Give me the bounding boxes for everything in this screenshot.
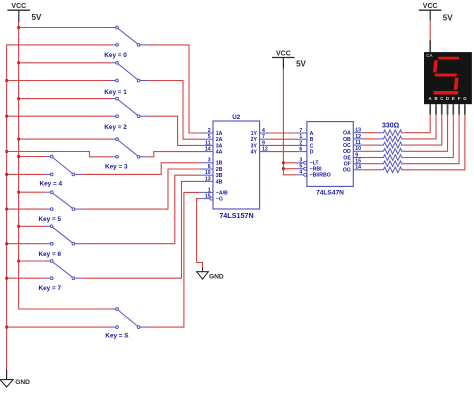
svg-text:7: 7 bbox=[299, 128, 302, 134]
svg-text:6: 6 bbox=[208, 164, 211, 170]
wire VCC bus to switch upper terminal y=139.1 bbox=[17, 138, 110, 141]
wire R7 to display segment G bbox=[404, 115, 465, 170]
wire VCC bus to switch upper terminal y=62.8 bbox=[17, 61, 110, 64]
switch J0 bbox=[104, 26, 147, 59]
pin U2 4B pin 13 bbox=[199, 176, 223, 185]
wire GND bus to switch lower terminal y=116.2 bbox=[5, 115, 110, 118]
svg-text:15: 15 bbox=[205, 194, 211, 200]
svg-text:GND: GND bbox=[209, 273, 224, 280]
svg-text:A: A bbox=[429, 96, 432, 101]
wire Key=S output to U2 ~A/B bbox=[148, 192, 200, 327]
wire U2 2Y to 74LS47N input bbox=[269, 138, 296, 140]
svg-text:C: C bbox=[440, 96, 443, 101]
ground GND at U2 ~G bbox=[202, 268, 204, 272]
pin U3 ~BI/RBO pin 4 bbox=[297, 170, 331, 179]
wire VCC bus to switch upper terminal y=156.5 bbox=[17, 155, 45, 158]
pin U2 2B pin 6 bbox=[199, 164, 223, 173]
svg-text:11: 11 bbox=[355, 140, 361, 146]
svg-text:12: 12 bbox=[355, 134, 361, 140]
svg-text:13: 13 bbox=[205, 176, 211, 182]
op IC U2 74LS157N multiplexer bbox=[213, 114, 260, 220]
pin U2 3A pin 11 bbox=[199, 140, 223, 149]
resistor R6 330 ohm bbox=[364, 161, 404, 167]
svg-text:13: 13 bbox=[355, 128, 361, 134]
svg-text:U2: U2 bbox=[232, 114, 240, 121]
svg-text:1B: 1B bbox=[216, 161, 223, 167]
svg-text:10: 10 bbox=[205, 170, 211, 176]
svg-text:CA: CA bbox=[426, 53, 433, 58]
svg-text:4A: 4A bbox=[216, 150, 223, 156]
svg-text:~G: ~G bbox=[216, 197, 223, 203]
wire R1 to display segment A bbox=[404, 115, 430, 133]
svg-text:OB: OB bbox=[343, 137, 351, 143]
wire VCC bus to switch upper terminal y=98.6 bbox=[17, 97, 110, 100]
pin U3 C pin 2 bbox=[297, 140, 314, 149]
svg-text:5V: 5V bbox=[32, 13, 42, 22]
svg-text:2: 2 bbox=[208, 128, 211, 134]
pin U3 ~RBI pin 5 bbox=[297, 164, 323, 173]
svg-text:F: F bbox=[458, 96, 461, 101]
svg-text:Key = S: Key = S bbox=[105, 332, 129, 339]
svg-text:2: 2 bbox=[299, 140, 302, 146]
switch J8 bbox=[105, 308, 147, 340]
svg-text:74LS47N: 74LS47N bbox=[316, 189, 344, 196]
wire U2 4Y to 74LS47N input bbox=[269, 151, 296, 153]
svg-text:Key = 6: Key = 6 bbox=[39, 251, 62, 258]
wire VCC bus to switch upper terminal y=261.0 bbox=[17, 260, 45, 263]
resistor R3 330 ohm bbox=[364, 142, 404, 148]
resistor R1 330 ohm bbox=[364, 130, 404, 136]
power VCC V3 5V top-right bbox=[419, 3, 453, 22]
svg-text:G: G bbox=[463, 96, 466, 101]
wire GND bus to switch lower terminal y=243.7 bbox=[5, 242, 45, 245]
pin U3 ~LT pin 3 bbox=[297, 158, 320, 167]
svg-text:Key = 3: Key = 3 bbox=[105, 163, 128, 170]
pin U2 1Y pin 4 bbox=[251, 128, 270, 137]
svg-text:2B: 2B bbox=[216, 167, 223, 173]
svg-text:4B: 4B bbox=[216, 179, 223, 185]
wire VCC bus to switch upper terminal y=27.5 bbox=[17, 26, 110, 29]
svg-text:3Y: 3Y bbox=[251, 143, 258, 149]
display U4 seven-segment common-anode bbox=[424, 21, 472, 115]
pin U3 OE pin 9 bbox=[343, 152, 363, 161]
switch J3 bbox=[105, 138, 148, 171]
pin U2 ~G pin 15 bbox=[199, 194, 223, 203]
svg-text:OA: OA bbox=[343, 131, 351, 137]
op IC U3 74LS47N BCD to seven-segment decoder bbox=[307, 122, 353, 197]
svg-text:7: 7 bbox=[262, 134, 265, 140]
pin U3 OA pin 13 bbox=[343, 128, 363, 137]
svg-text:OG: OG bbox=[343, 168, 351, 174]
wire U2 3Y to 74LS47N input bbox=[269, 144, 296, 146]
svg-text:3: 3 bbox=[208, 158, 211, 164]
pin U2 3B pin 10 bbox=[199, 170, 223, 179]
svg-text:12: 12 bbox=[262, 147, 268, 153]
svg-text:VCC: VCC bbox=[11, 3, 26, 10]
wire GND bus to switch lower terminal y=174.4 bbox=[5, 173, 45, 176]
svg-text:6: 6 bbox=[299, 147, 302, 153]
svg-text:C: C bbox=[310, 143, 314, 149]
resistor R5 330 ohm bbox=[364, 155, 404, 161]
pin U3 D pin 6 bbox=[297, 147, 314, 156]
svg-text:D: D bbox=[310, 150, 314, 156]
svg-text:B: B bbox=[310, 137, 314, 143]
svg-text:2Y: 2Y bbox=[251, 137, 258, 143]
pin U3 OF pin 15 bbox=[344, 159, 364, 168]
pin U2 ~A/B pin 1 bbox=[199, 187, 228, 196]
svg-text:~A/B: ~A/B bbox=[216, 190, 228, 196]
svg-text:B: B bbox=[434, 96, 437, 101]
wire R2 to display segment B bbox=[404, 115, 436, 139]
wire R4 to display segment D bbox=[404, 115, 448, 152]
switch J7 bbox=[39, 260, 83, 292]
wire Key=7 output to U2 4B bbox=[82, 181, 199, 278]
wire Key=0 output to U2 1A bbox=[148, 45, 200, 133]
power VCC V2 5V center bbox=[272, 50, 307, 68]
switch J1 bbox=[104, 61, 147, 96]
svg-text:VCC: VCC bbox=[276, 50, 291, 57]
switch J4 bbox=[40, 155, 83, 187]
svg-text:VCC: VCC bbox=[423, 3, 438, 10]
svg-text:2A: 2A bbox=[216, 137, 223, 143]
svg-text:1Y: 1Y bbox=[251, 131, 258, 137]
svg-text:GND: GND bbox=[15, 379, 30, 386]
wire R3 to display segment C bbox=[404, 115, 442, 145]
wire R5 to display segment E bbox=[404, 115, 453, 158]
svg-text:D: D bbox=[446, 96, 449, 101]
svg-text:Key = 1: Key = 1 bbox=[104, 89, 127, 96]
wire R6 to display segment F bbox=[404, 115, 459, 164]
svg-text:3A: 3A bbox=[216, 143, 223, 149]
svg-text:Key = 2: Key = 2 bbox=[104, 124, 127, 131]
svg-text:3B: 3B bbox=[216, 173, 223, 179]
pin U3 OC pin 11 bbox=[343, 140, 363, 149]
svg-text:5V: 5V bbox=[443, 13, 453, 22]
wire GND bus to switch lower terminal y=80.5 bbox=[5, 79, 110, 82]
pin U3 A pin 7 bbox=[297, 128, 314, 137]
wire Key=1 output to U2 2A bbox=[148, 81, 200, 140]
wire Key=5 output to U2 2B bbox=[82, 169, 199, 209]
svg-text:Key = 7: Key = 7 bbox=[39, 285, 62, 292]
svg-text:OD: OD bbox=[343, 149, 351, 155]
svg-text:Key = 4: Key = 4 bbox=[40, 180, 63, 187]
svg-text:14: 14 bbox=[205, 147, 211, 153]
svg-text:1: 1 bbox=[299, 134, 302, 140]
svg-text:330Ω: 330Ω bbox=[382, 122, 400, 129]
svg-text:4: 4 bbox=[299, 170, 302, 176]
svg-text:9: 9 bbox=[262, 140, 265, 146]
resistor R7 330 ohm bbox=[364, 167, 404, 173]
pin U2 2Y pin 7 bbox=[251, 134, 270, 143]
ground GND bottom-left bbox=[6, 370, 8, 380]
svg-text:4: 4 bbox=[262, 128, 265, 134]
svg-text:11: 11 bbox=[205, 140, 211, 146]
svg-text:OE: OE bbox=[343, 155, 351, 161]
svg-text:OF: OF bbox=[344, 162, 351, 168]
wire U2 1Y to 74LS47N input bbox=[269, 132, 296, 134]
svg-text:~RBI: ~RBI bbox=[310, 167, 323, 173]
svg-text:1A: 1A bbox=[216, 131, 223, 137]
resistor R4 330 ohm bbox=[364, 149, 404, 155]
pin U2 1B pin 3 bbox=[199, 158, 223, 167]
pin U3 OB pin 12 bbox=[343, 134, 363, 143]
switch J2 bbox=[104, 97, 147, 131]
wire VCC bus to switch upper terminal y=192.2 bbox=[17, 191, 45, 194]
svg-text:E: E bbox=[452, 96, 455, 101]
svg-text:A: A bbox=[310, 131, 314, 137]
svg-text:10: 10 bbox=[355, 146, 361, 152]
wire GND bus to Key=3 lower terminal with jog bbox=[5, 150, 110, 157]
svg-text:15: 15 bbox=[355, 159, 361, 165]
svg-text:Key = 5: Key = 5 bbox=[39, 216, 62, 223]
pin U2 1A pin 2 bbox=[199, 128, 223, 137]
wire Key=4 output to U2 1B bbox=[82, 163, 199, 175]
pin U3 OD pin 10 bbox=[343, 146, 363, 155]
wire VCC bus to switch upper terminal y=226.3 bbox=[17, 225, 45, 228]
wire GND bus to switch lower terminal y=278.2 bbox=[5, 277, 45, 280]
wire U2 ~G to ground bbox=[197, 199, 203, 268]
switch J5 bbox=[39, 191, 83, 223]
wire GND bus vertical left bbox=[7, 45, 111, 370]
wire Key=3 output to U2 4A bbox=[148, 152, 200, 157]
svg-text:Key = 0: Key = 0 bbox=[104, 52, 127, 59]
svg-text:14: 14 bbox=[355, 165, 361, 171]
svg-text:~BI/RBO: ~BI/RBO bbox=[310, 173, 331, 179]
svg-text:1: 1 bbox=[208, 187, 211, 193]
svg-text:OC: OC bbox=[343, 143, 351, 149]
wire GND bus to switch lower terminal y=209.1 bbox=[5, 208, 45, 211]
power VCC V1 5V top-left bbox=[7, 3, 42, 22]
wire VCC bus vertical left bbox=[19, 22, 111, 309]
switch J6 bbox=[39, 225, 83, 258]
svg-text:4Y: 4Y bbox=[251, 150, 258, 156]
wire Key=2 output to U2 3A bbox=[148, 116, 200, 145]
wire VCC V2 to 74LS47N ~LT ~RBI ~BI/RBO bbox=[282, 69, 297, 175]
pin U3 OG pin 14 bbox=[343, 165, 364, 174]
resistor R2 330 ohm bbox=[364, 136, 404, 142]
svg-text:5: 5 bbox=[208, 134, 211, 140]
pin U2 4A pin 14 bbox=[199, 147, 223, 156]
svg-text:9: 9 bbox=[355, 152, 358, 158]
svg-text:5V: 5V bbox=[296, 59, 306, 68]
pin U2 2A pin 5 bbox=[199, 134, 223, 143]
pin U2 3Y pin 9 bbox=[251, 140, 270, 149]
pin U3 B pin 1 bbox=[297, 134, 314, 143]
pin U2 4Y pin 12 bbox=[251, 147, 270, 156]
svg-text:5: 5 bbox=[299, 164, 302, 170]
wire Key=6 output to U2 3B bbox=[82, 175, 199, 244]
wire GND bus to switch lower terminal y=327.1 bbox=[5, 326, 110, 329]
svg-text:74LS157N: 74LS157N bbox=[219, 211, 253, 220]
